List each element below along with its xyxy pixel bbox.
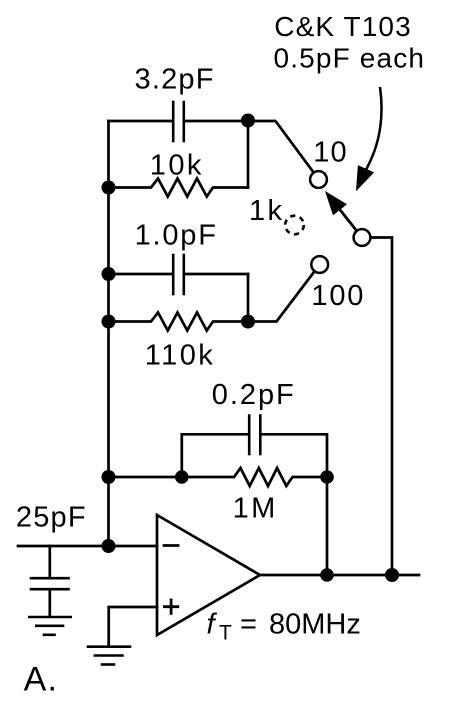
svg-text:=: = bbox=[240, 609, 257, 641]
switch contact 1k (unused, dashed) bbox=[285, 216, 304, 235]
resistor R 110k bbox=[109, 313, 249, 331]
wire 1.0pF cap row bbox=[109, 273, 172, 276]
svg-text:0.2pF: 0.2pF bbox=[212, 379, 296, 411]
wire input line bbox=[18, 545, 157, 548]
wire 0.2pF cap row bbox=[182, 434, 248, 477]
capacitor 25pF bbox=[31, 578, 69, 589]
switch wiper arrowhead bbox=[325, 191, 347, 215]
svg-text:10: 10 bbox=[313, 137, 348, 169]
node dot output 1 bbox=[320, 568, 334, 582]
node dot 1.0pF left bbox=[102, 267, 116, 281]
resistor R 10k bbox=[109, 179, 249, 197]
annotation curved arrow bbox=[364, 87, 382, 173]
svg-text:0.5pF each: 0.5pF each bbox=[274, 43, 426, 74]
capacitor 1.0pF bbox=[173, 255, 184, 294]
svg-text:25pF: 25pF bbox=[16, 501, 87, 533]
node dot input bbox=[102, 539, 116, 553]
resistor R 1M bbox=[109, 468, 328, 486]
svg-text:C&K T103: C&K T103 bbox=[274, 11, 411, 42]
wire switch lead from 10k pair bbox=[248, 121, 314, 173]
wire switch wiper arm bbox=[339, 208, 357, 231]
wire 25pF stub upper bbox=[48, 546, 51, 578]
wire output line bbox=[260, 574, 419, 577]
switch pole contact bbox=[354, 229, 371, 246]
op-amp plus sign bbox=[164, 605, 177, 608]
wire right connector middle pair bbox=[247, 274, 250, 322]
wire 25pF stub lower bbox=[48, 591, 51, 617]
svg-text:3.2pF: 3.2pF bbox=[135, 63, 215, 95]
switch contact 100 bbox=[311, 256, 328, 273]
node dot output 2 bbox=[385, 568, 399, 582]
capacitor 3.2pF bbox=[173, 102, 184, 141]
op-amp U1 bbox=[157, 515, 260, 635]
svg-text:f: f bbox=[207, 609, 218, 641]
wire 1M junction down to output bbox=[326, 477, 329, 575]
node dot 1M row bus bbox=[102, 470, 116, 484]
svg-text:T: T bbox=[219, 622, 232, 645]
node dot 10k left bbox=[102, 181, 116, 195]
svg-text:110k: 110k bbox=[145, 340, 215, 372]
node dot 110k right junction bbox=[241, 315, 255, 329]
ground below plus input bbox=[88, 647, 130, 665]
ground below 25pF bbox=[29, 617, 70, 635]
node dot 110k left bbox=[102, 315, 116, 329]
svg-text:80MHz: 80MHz bbox=[269, 609, 361, 641]
switch contact 10 bbox=[310, 171, 327, 188]
wire left vertical bus bbox=[107, 121, 110, 546]
svg-text:1k: 1k bbox=[249, 195, 284, 227]
svg-text:10k: 10k bbox=[150, 149, 204, 181]
wire plus input to ground bbox=[109, 607, 157, 646]
wire switch pole to right bus bbox=[370, 238, 392, 576]
node dot top switch junction bbox=[241, 114, 255, 128]
wire switch lead from 110k pair bbox=[248, 271, 315, 321]
svg-text:100: 100 bbox=[311, 280, 365, 312]
wire right connector top pair bbox=[247, 121, 250, 188]
svg-text:1M: 1M bbox=[233, 492, 278, 524]
svg-text:A.: A. bbox=[24, 660, 59, 698]
node dot 1M right junction bbox=[320, 470, 334, 484]
op-amp minus sign bbox=[164, 544, 178, 547]
node dot 0.2pF connector junction bbox=[175, 470, 189, 484]
capacitor 0.2pF bbox=[249, 416, 260, 455]
wire 3.2pF cap row bbox=[109, 120, 172, 123]
svg-text:1.0pF: 1.0pF bbox=[135, 219, 218, 251]
